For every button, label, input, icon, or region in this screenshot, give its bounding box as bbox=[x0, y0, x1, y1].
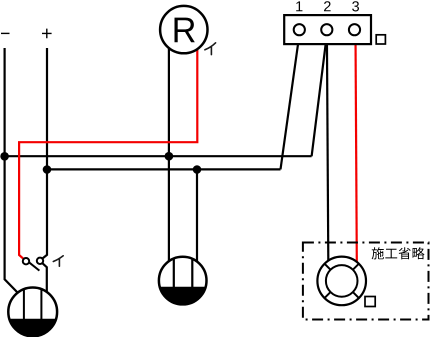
junction node lamp R wire bbox=[165, 152, 174, 161]
dash-dot omission boundary bbox=[303, 243, 429, 320]
lamp receptacle R circle bbox=[160, 6, 207, 53]
ceiling rose middle filled segment bbox=[174, 259, 193, 287]
ceiling rose left circle bbox=[8, 288, 57, 337]
wire negative vertical bbox=[5, 48, 18, 293]
label i katakana near switch bbox=[53, 256, 63, 266]
terminal block body bbox=[284, 15, 371, 44]
wire branch to middle lamp bbox=[196, 169, 198, 261]
switch blade bbox=[29, 262, 39, 270]
wire switch to lamp bbox=[43, 263, 47, 292]
square label near outlet bbox=[365, 297, 375, 307]
junction node on negative line bbox=[0, 152, 9, 161]
text construction-omitted 施 bbox=[372, 247, 384, 259]
junction node middle lamp branch bbox=[193, 165, 202, 174]
outlet inner circle bbox=[326, 265, 358, 297]
wire diagonal to terminal 1 bbox=[281, 35, 300, 169]
terminal 3 bbox=[349, 24, 360, 35]
wire horizontal neutral link bbox=[5, 155, 312, 157]
terminal 2 bbox=[321, 24, 332, 35]
text construction-omitted 略 bbox=[413, 247, 425, 259]
terminal label 1 bbox=[296, 1, 302, 11]
text construction-omitted 省 bbox=[399, 247, 411, 259]
outlet spokes bbox=[325, 264, 359, 298]
terminal label 3 bbox=[352, 1, 359, 11]
wire diagonal to terminal 2 bbox=[312, 35, 327, 156]
power label plus bbox=[42, 29, 52, 39]
wire positive vertical bbox=[43, 48, 47, 258]
wire horizontal live link bbox=[47, 168, 281, 170]
switch contact left bbox=[23, 258, 29, 264]
switch contact right bbox=[37, 258, 43, 264]
red wire terminal 3 to outlet bbox=[356, 35, 357, 262]
outlet outer circle bbox=[317, 257, 366, 306]
wire terminal 2 to outlet bbox=[327, 35, 328, 261]
power label minus bbox=[1, 32, 10, 34]
junction node on positive line bbox=[43, 165, 52, 174]
label i katakana near lamp R bbox=[205, 43, 216, 55]
ceiling rose left filled segment bbox=[9, 319, 56, 336]
ceiling rose left chords bbox=[24, 290, 42, 319]
ceiling rose middle circle bbox=[159, 257, 207, 305]
red wire lamp R to switch bbox=[19, 48, 197, 259]
square label near terminal block bbox=[376, 35, 385, 44]
wire black from lamp R to middle lamp bbox=[168, 48, 170, 261]
lamp R letter bbox=[175, 18, 195, 43]
terminal 1 bbox=[294, 24, 305, 35]
text construction-omitted 工 bbox=[385, 249, 397, 259]
terminal label 2 bbox=[324, 1, 331, 11]
